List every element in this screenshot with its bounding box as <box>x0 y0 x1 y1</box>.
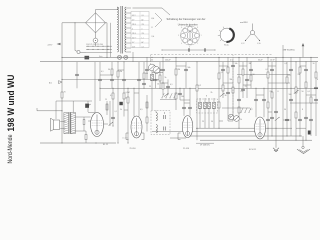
wire vertical x296 <box>295 62 297 141</box>
gang dashed link2 <box>232 55 234 114</box>
wire connector H1 <box>152 72 163 74</box>
wire vertical x219 <box>218 57 220 128</box>
wire vertical x247 <box>246 57 248 98</box>
wire connector H24 <box>228 120 233 122</box>
potentiometer arrow P2 <box>164 93 168 96</box>
svg-text:2k: 2k <box>211 92 213 94</box>
capacitor C10 <box>231 64 235 66</box>
svg-text:6,3 V: 6,3 V <box>132 15 136 17</box>
svg-text:6,3 V~: 6,3 V~ <box>132 37 137 39</box>
wire vertical x311 <box>310 57 312 136</box>
wire vertical x272 <box>271 62 273 136</box>
junction J28 <box>291 88 292 89</box>
wire vertical x243 <box>242 62 244 98</box>
bottom rail a <box>196 127 292 129</box>
junction J27 <box>264 88 265 89</box>
svg-text:50: 50 <box>125 98 127 100</box>
capacitor C36 <box>314 86 318 88</box>
svg-text:100: 100 <box>181 96 184 98</box>
junction J7 <box>176 57 177 58</box>
potentiometer arrow P5 <box>275 117 279 120</box>
wire vertical x214 <box>213 98 215 128</box>
svg-text:285 V: 285 V <box>132 24 136 26</box>
svg-text:25: 25 <box>105 99 107 101</box>
wire primary top <box>116 7 118 10</box>
resistor R7 <box>175 69 177 75</box>
svg-text:8: 8 <box>278 91 279 93</box>
wire connector H6 <box>219 65 228 67</box>
capacitor C14 <box>254 98 258 100</box>
wire connector H13 <box>300 65 306 67</box>
wire vertical x88 <box>87 101 89 112</box>
resistor R19 <box>286 77 288 83</box>
wire vertical x128 <box>127 88 129 143</box>
IF transformer F1 <box>151 111 170 135</box>
pilot lamp assembly <box>250 30 254 34</box>
resistor R28 <box>238 107 240 113</box>
svg-text:0,3: 0,3 <box>285 63 288 65</box>
svg-text:0,1: 0,1 <box>101 71 104 73</box>
capacitor C24 <box>314 98 318 100</box>
wire vertical x147 <box>146 57 148 79</box>
svg-text:70: 70 <box>64 92 66 94</box>
wire vertical x276 <box>275 57 277 128</box>
resistor R10 <box>218 73 220 79</box>
wire connector H2 <box>160 82 168 84</box>
coupling capacitor mains <box>76 62 78 89</box>
svg-text:0,2: 0,2 <box>250 109 253 111</box>
wire vertical x160 <box>159 62 161 89</box>
junction J44 <box>306 140 307 141</box>
wire connector H18 <box>88 112 95 114</box>
svg-text:Nord-Mende: Nord-Mende <box>8 134 14 164</box>
wire vertical x287 <box>286 62 288 136</box>
tube V1 connections <box>88 120 91 122</box>
junction J40 <box>272 136 273 137</box>
wire osc mid <box>222 107 250 109</box>
svg-text:und WU: und WU <box>240 22 248 24</box>
capacitor C19 <box>285 118 289 120</box>
wire vertical x176 <box>175 57 177 110</box>
junction J17 <box>311 57 312 58</box>
wire vertical x184 <box>183 88 185 116</box>
capacitor C2 <box>145 68 149 70</box>
junction J15 <box>296 61 297 62</box>
svg-text:0,3: 0,3 <box>142 46 144 48</box>
svg-text:Netz: Netz <box>99 55 103 58</box>
wire vertical x152 <box>151 71 153 110</box>
capacitor C26 <box>161 68 165 70</box>
wire vertical x256 <box>255 88 257 117</box>
junction J38 <box>128 143 129 144</box>
bottom rail left <box>40 142 116 144</box>
svg-text:10k: 10k <box>235 63 238 65</box>
svg-text:0,5: 0,5 <box>241 91 244 93</box>
wire connector H7 <box>223 82 233 84</box>
capacitor C22 <box>304 116 308 118</box>
fuse Si1 <box>93 38 98 43</box>
bottom rail d <box>170 137 186 139</box>
capacitor C33 <box>289 68 293 70</box>
svg-text:0,1: 0,1 <box>170 84 173 86</box>
oscillator switch S2 <box>241 108 243 112</box>
grid input parts <box>109 122 113 125</box>
junction J29 <box>62 79 63 80</box>
capacitor C35 <box>304 68 308 70</box>
svg-text:0,1: 0,1 <box>115 111 117 113</box>
svg-text:8: 8 <box>302 109 303 111</box>
voltage selector rows <box>86 45 112 47</box>
svg-text:50k: 50k <box>188 67 191 69</box>
suppressor capacitor block <box>85 56 90 60</box>
aerial arrow <box>302 45 304 57</box>
resistor R17 <box>267 72 269 78</box>
svg-text:70: 70 <box>245 86 247 88</box>
wire vertical x209 <box>208 98 210 128</box>
wire vertical x95 <box>94 62 96 113</box>
svg-text:55: 55 <box>151 27 153 29</box>
capacitor C1 <box>98 78 102 80</box>
svg-text:8: 8 <box>317 79 318 81</box>
capacitor C7 <box>188 106 192 108</box>
svg-text:25 416: 25 416 <box>130 148 137 150</box>
capacitor C23 <box>309 118 313 120</box>
junction J5 <box>152 57 153 58</box>
svg-text:255: 255 <box>142 24 145 26</box>
wire vertical x233 <box>232 62 234 121</box>
rail left stub <box>37 110 62 112</box>
svg-text:30: 30 <box>225 95 227 97</box>
svg-text:50: 50 <box>211 121 213 123</box>
wire vertical x110 <box>109 101 111 126</box>
rail mid right <box>237 74 290 76</box>
tube V1 EL11 <box>91 113 104 137</box>
capacitor C27 <box>110 78 114 80</box>
capacitor C34 <box>270 68 274 70</box>
junction J8 <box>197 61 198 62</box>
coupling cap dark2 <box>119 102 122 105</box>
tone resistor <box>83 117 85 131</box>
svg-text:220V~: 220V~ <box>48 44 54 46</box>
svg-text:198 W und WU: 198 W und WU <box>6 74 17 131</box>
resistor hatched Rh3 <box>204 102 207 109</box>
wire dial zigzag <box>155 13 162 20</box>
wire vertical x112 <box>111 62 113 89</box>
capacitor C12 <box>241 88 245 90</box>
wire vertical x197 <box>196 62 198 141</box>
junction J1 <box>62 57 63 58</box>
wire vertical x186 <box>185 62 187 89</box>
wire connector H8 <box>239 65 247 67</box>
capacitor C30 <box>158 68 162 70</box>
junction J12 <box>251 61 252 62</box>
junction J39 <box>96 143 97 144</box>
svg-text:255: 255 <box>142 33 145 35</box>
junction J31 <box>197 128 198 129</box>
capacitor C9 <box>226 91 230 93</box>
rail HT top <box>62 56 318 58</box>
wire vertical x144 <box>143 62 145 89</box>
junction J19 <box>113 88 114 89</box>
wire heater run <box>133 7 163 9</box>
svg-text:4 V: 4 V <box>132 42 134 44</box>
tube socket bottom view <box>181 26 200 45</box>
junction J4 <box>124 61 125 62</box>
wire connector H22 <box>283 119 291 121</box>
junction J25 <box>190 88 191 89</box>
potentiometer arrow P4 <box>294 90 298 93</box>
rail y83 segment <box>268 82 290 84</box>
wire connector H4 <box>180 99 190 101</box>
resistor R2 <box>117 71 119 77</box>
rail speaker feed <box>56 100 92 102</box>
potentiometer arrow P1 <box>86 104 90 107</box>
bottom rail IF <box>152 131 256 133</box>
capacitor C25 <box>142 82 146 84</box>
svg-text:285 V: 285 V <box>132 33 136 35</box>
wire vertical x291 <box>290 57 292 136</box>
junction J6 <box>163 57 164 58</box>
svg-text:200 pF: 200 pF <box>165 59 171 61</box>
junction J14 <box>283 57 284 58</box>
wire connector H9 <box>243 84 251 86</box>
capacitor C13 <box>245 78 249 80</box>
svg-text:1,9-19,5: 1,9-19,5 <box>122 137 128 139</box>
wire stub left <box>36 108 38 111</box>
cathode resistor Rk <box>85 135 87 140</box>
resistor R el <box>106 104 108 110</box>
junction J42 <box>300 136 301 137</box>
svg-text:8: 8 <box>206 96 207 98</box>
electrolytic capacitor dark <box>85 104 89 108</box>
resistor R23 <box>310 97 312 103</box>
svg-text:50: 50 <box>108 69 110 71</box>
transformer Tr1 core <box>120 6 122 54</box>
wire vertical x316 <box>315 62 317 136</box>
bottom rail b <box>186 135 302 137</box>
wire mains live <box>61 23 63 143</box>
capacitor C17 <box>270 116 274 118</box>
resistor R22 <box>305 82 307 88</box>
svg-text:1,1: 1,1 <box>142 37 144 39</box>
svg-text:20 V: 20 V <box>132 46 135 48</box>
junction J37 <box>118 143 119 144</box>
svg-text:50: 50 <box>253 74 255 76</box>
svg-text:7: 7 <box>189 24 190 26</box>
wire vertical x264 <box>263 88 265 117</box>
wire vertical x190 <box>189 88 191 116</box>
junction J13 <box>268 57 269 58</box>
wire transformer tube <box>75 116 91 118</box>
svg-text:50: 50 <box>284 109 286 111</box>
resistor R3 <box>123 93 125 99</box>
wire vertical x283 <box>282 45 284 140</box>
junction J35 <box>276 128 277 129</box>
resistor hatched Rh2 <box>199 102 202 109</box>
svg-text:Ant: Ant <box>49 82 52 85</box>
wire vertical x268 <box>267 57 269 140</box>
wire vertical x300 <box>299 57 301 136</box>
svg-text:0,1: 0,1 <box>308 91 311 93</box>
IF transformer F2 <box>197 99 218 113</box>
wire vertical x205 <box>204 98 206 128</box>
tube V2 EBF11 <box>131 116 142 138</box>
resistor R20 <box>295 87 297 93</box>
svg-text:ZF 468 kHz: ZF 468 kHz <box>200 145 210 147</box>
capacitor C3 <box>154 78 158 80</box>
resistor R14 <box>238 77 240 83</box>
svg-text:3: 3 <box>189 46 190 48</box>
capacitor C4 <box>166 85 170 87</box>
capacitor C18 <box>274 110 278 112</box>
svg-text:0,5M: 0,5M <box>126 92 130 94</box>
svg-text:4 V: 4 V <box>132 19 134 21</box>
junction J11 <box>239 57 240 58</box>
heater bracket V2 <box>125 133 127 140</box>
svg-text:100: 100 <box>145 73 148 75</box>
wire trafo B+ <box>72 101 74 113</box>
svg-text:1: 1 <box>201 35 202 37</box>
transformer Tr1 primary <box>117 7 118 52</box>
svg-text:5k: 5k <box>165 77 167 79</box>
potentiometer arrow P3 <box>220 93 224 96</box>
resistor R24 <box>315 72 317 78</box>
resistor hatched Rh4 <box>208 102 211 109</box>
svg-text:1k: 1k <box>240 119 242 121</box>
svg-text:0,1: 0,1 <box>221 72 224 74</box>
wire connector H11 <box>268 65 276 67</box>
svg-text:5: 5 <box>178 35 179 37</box>
junction J24 <box>180 88 181 89</box>
junction J32 <box>219 128 220 129</box>
capacitor C6 <box>182 106 186 108</box>
junction J3 <box>118 61 119 62</box>
wire connector H16 <box>118 69 124 71</box>
resistor R1 <box>61 92 63 98</box>
junction J41 <box>287 136 288 137</box>
resistor hatched Rh5 <box>213 102 216 109</box>
svg-text:25 416: 25 416 <box>183 148 190 150</box>
output transformer Tr2 <box>64 113 69 134</box>
tube V4 ECH11 <box>255 117 266 139</box>
resistor R osc1 <box>146 102 148 108</box>
wire vertical x223 <box>222 62 224 98</box>
junction J20 <box>128 88 129 89</box>
wire vertical x163 <box>162 57 164 95</box>
wire vertical x168 <box>167 79 169 95</box>
resistor R11 <box>222 85 224 91</box>
junction J26 <box>256 88 257 89</box>
capacitor C28 <box>122 78 126 80</box>
bridge rectifier B1 <box>86 13 106 33</box>
wire connector H12 <box>287 74 291 76</box>
wire bridge right <box>106 22 108 24</box>
decoupling blob <box>308 131 311 135</box>
svg-text:0,5: 0,5 <box>140 109 143 111</box>
junction J23 <box>160 88 161 89</box>
dial lamp La2 <box>124 55 128 59</box>
resistor R5 <box>159 75 161 81</box>
wire vertical x133 <box>132 52 134 62</box>
wire bridge top <box>95 10 97 13</box>
resistor hatched Rh1 <box>151 74 154 81</box>
wire bridge bottom <box>95 33 97 38</box>
resistor R27 <box>218 102 220 108</box>
antenna symbol <box>59 81 63 84</box>
resistor R6 <box>162 83 164 89</box>
svg-text:ECH 11: ECH 11 <box>249 149 257 151</box>
wire connector H5 <box>184 102 190 104</box>
svg-text:20k: 20k <box>270 91 273 93</box>
tube V3 ECH11 osc <box>182 116 192 138</box>
resistor R13 <box>232 87 234 93</box>
rail heater <box>40 61 318 63</box>
resistor R15 <box>242 69 244 75</box>
svg-text:500: 500 <box>150 59 153 61</box>
junction J45 <box>62 143 63 144</box>
resistor R12 <box>227 67 229 73</box>
wire connector H3 <box>176 65 186 67</box>
heater wire y50 <box>162 49 215 51</box>
junction J33 <box>239 128 240 129</box>
rail chassis mid <box>100 87 318 89</box>
svg-text:0,9: 0,9 <box>142 15 144 17</box>
junction J18 <box>100 88 101 89</box>
wire vertical x118 <box>117 62 119 143</box>
resistor R9 <box>196 85 198 91</box>
dial cord drum <box>220 28 234 42</box>
capacitor C20 <box>289 98 293 100</box>
resistor R112 <box>111 69 113 75</box>
svg-text:8: 8 <box>197 27 198 29</box>
svg-text:5k: 5k <box>120 109 122 111</box>
capacitor C8 <box>221 68 225 70</box>
wire vertical x228 <box>227 57 229 121</box>
resistor R21 <box>299 67 301 73</box>
wire vertical x100 <box>99 62 101 101</box>
wire connector H21 <box>268 111 272 113</box>
wire vertical x200 <box>199 98 201 128</box>
wire connector H19 <box>124 109 128 111</box>
capacitor C29 <box>137 78 141 80</box>
heater bracket V3 <box>177 133 179 140</box>
capacitor C5 <box>178 92 182 94</box>
junction J30 <box>152 79 153 80</box>
svg-text:4: 4 <box>181 43 182 45</box>
rail AVC left <box>62 78 160 80</box>
wire connector H14 <box>306 94 316 96</box>
junction J36 <box>62 110 63 111</box>
svg-text:100: 100 <box>289 94 292 96</box>
speaker LS <box>54 120 60 130</box>
capacitor C32 <box>249 68 253 70</box>
svg-text:50: 50 <box>302 91 304 93</box>
terminal table <box>131 12 149 48</box>
svg-text:110 125 150 220 240: 110 125 150 220 240 <box>86 44 103 46</box>
svg-text:6: 6 <box>181 27 182 29</box>
resistor R29 <box>295 112 297 118</box>
wire vertical x124 <box>123 62 125 117</box>
rail right short <box>290 102 318 104</box>
svg-text:EL 11: EL 11 <box>103 144 109 146</box>
svg-text:Schaltung der Fassungen von de: Schaltung der Fassungen von der <box>167 17 206 21</box>
resistor R osc2 <box>146 117 148 123</box>
tuning gang section1 <box>149 64 156 71</box>
wire bridge left to mains <box>62 22 86 24</box>
svg-text:0,2: 0,2 <box>199 85 202 87</box>
junction J43 <box>296 140 297 141</box>
wires speaker transformer <box>60 121 65 123</box>
